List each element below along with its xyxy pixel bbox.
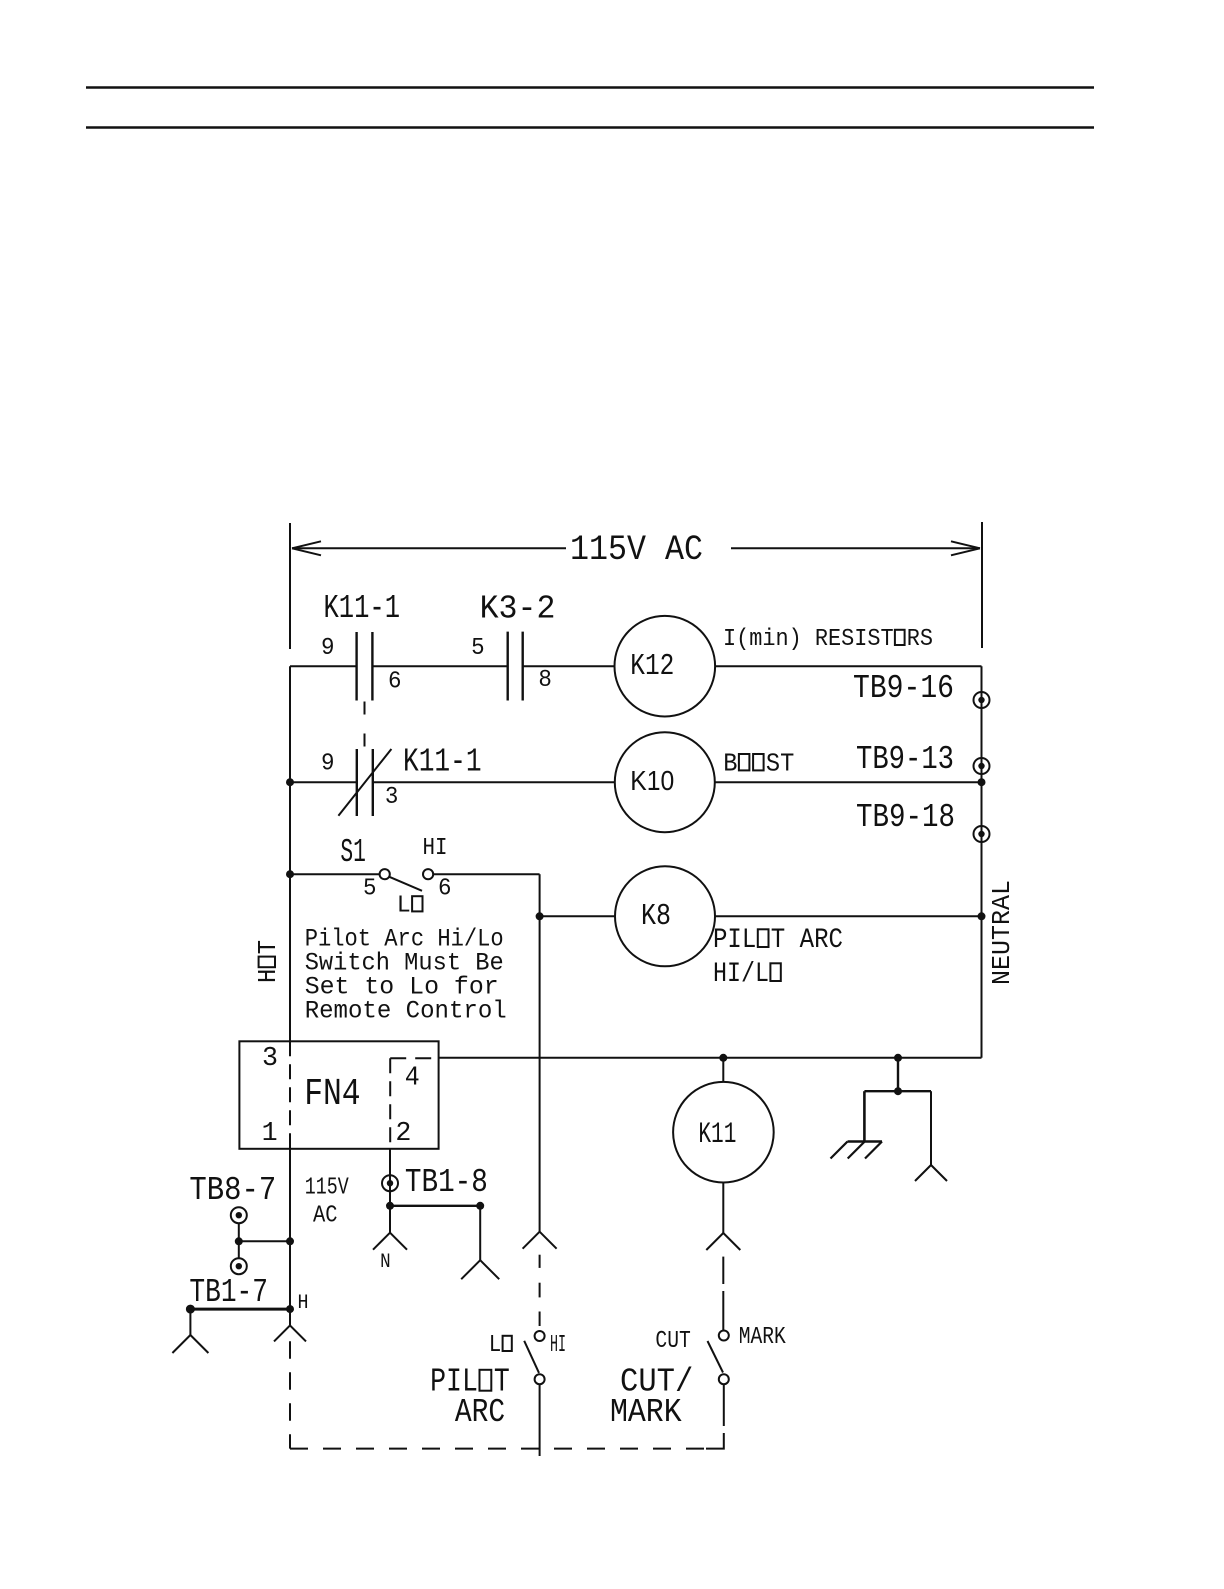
junction row3 right bbox=[978, 912, 986, 920]
terminal TB1-8 bbox=[382, 1175, 398, 1191]
junction row2 left bbox=[286, 778, 294, 786]
contact K11-1 (NC) pins 9-3 bbox=[338, 749, 391, 816]
svg-text:TB9-13: TB9-13 bbox=[856, 741, 954, 778]
hidden wire H to pendant bbox=[289, 1341, 291, 1448]
svg-text:5: 5 bbox=[363, 876, 377, 903]
svg-text:3: 3 bbox=[262, 1044, 278, 1074]
FN4 internal dashed path 4 horizontal bbox=[390, 1057, 437, 1059]
label HOT (vertical) bbox=[253, 940, 283, 983]
junction TB1-7 left bbox=[186, 1305, 195, 1314]
wire S1-HI down to pendant bbox=[539, 916, 541, 1231]
svg-text:L: L bbox=[397, 892, 411, 919]
HOT rail upper bbox=[289, 666, 291, 1041]
svg-text:TB9-16: TB9-16 bbox=[853, 670, 954, 707]
junction ground split bbox=[894, 1087, 902, 1095]
svg-text:9: 9 bbox=[321, 635, 335, 662]
svg-text:PIL: PIL bbox=[713, 925, 756, 956]
wire TB1-7 bold link bbox=[190, 1308, 290, 1311]
switch S1 pin 5 contact bbox=[380, 869, 390, 879]
switch PILOT ARC blade bbox=[524, 1341, 539, 1373]
node H junction bbox=[286, 1305, 294, 1313]
hidden wire to MARK contact bbox=[722, 1257, 724, 1331]
svg-text:6: 6 bbox=[388, 669, 402, 696]
wire FN4 pin2 down bbox=[389, 1149, 391, 1206]
wire row1 segment d bbox=[715, 665, 981, 667]
wire row3 segment d bbox=[715, 915, 982, 917]
svg-text:5: 5 bbox=[471, 635, 485, 662]
svg-text:TB8-7: TB8-7 bbox=[189, 1172, 276, 1209]
wire row1 segment c bbox=[523, 665, 615, 667]
svg-text:HI/L: HI/L bbox=[713, 959, 769, 990]
relay coil K11 bbox=[673, 1082, 774, 1183]
svg-text:NEUTRAL: NEUTRAL bbox=[987, 880, 1017, 985]
svg-text:AC: AC bbox=[313, 1202, 338, 1229]
svg-text:K3-2: K3-2 bbox=[480, 591, 556, 628]
terminal TB9-16 bbox=[974, 692, 990, 708]
svg-text:TB1-8: TB1-8 bbox=[405, 1164, 488, 1201]
wire row1 segment a bbox=[290, 665, 357, 667]
svg-text:Remote Control: Remote Control bbox=[305, 997, 507, 1026]
connector crow-foot pilot arc bbox=[523, 1232, 540, 1249]
wire row3 segment c bbox=[540, 915, 615, 917]
wire row2 segment c bbox=[715, 781, 982, 783]
node N junction bbox=[386, 1202, 394, 1210]
FN4 internal dashed path 4-2 vertical bbox=[389, 1058, 391, 1149]
svg-text:K10: K10 bbox=[630, 765, 674, 796]
svg-text:4: 4 bbox=[405, 1064, 420, 1094]
switch CUT/MARK MARK contact bbox=[719, 1331, 729, 1341]
wire row3 segment a bbox=[290, 873, 380, 875]
svg-text:K12: K12 bbox=[630, 649, 674, 684]
junction TB1-8 right bbox=[476, 1202, 484, 1210]
svg-text:S1: S1 bbox=[340, 834, 366, 871]
FN4 internal dashed path 3-1 bbox=[289, 1041, 291, 1149]
junction row2 right bbox=[978, 778, 986, 786]
svg-text:K11-1: K11-1 bbox=[403, 744, 482, 781]
wire TB8-7 to junction bbox=[238, 1223, 240, 1258]
svg-text:T: T bbox=[253, 940, 283, 954]
svg-text:HI: HI bbox=[423, 835, 448, 862]
svg-text:FN4: FN4 bbox=[304, 1073, 360, 1116]
pendant dashed corner bbox=[706, 1433, 724, 1449]
svg-text:8: 8 bbox=[538, 667, 552, 694]
svg-text:T ARC: T ARC bbox=[771, 925, 843, 956]
connector crow-foot TB1-8 bbox=[461, 1260, 480, 1279]
svg-text:6: 6 bbox=[438, 876, 452, 903]
wire TB1-8 split bbox=[390, 1205, 480, 1207]
svg-text:CUT: CUT bbox=[655, 1328, 690, 1355]
junction K11 branch bbox=[719, 1054, 727, 1062]
svg-text:MARK: MARK bbox=[610, 1394, 682, 1431]
wire ground split horizontal bbox=[864, 1090, 931, 1092]
connector crow-foot TB1-7 bbox=[189, 1309, 191, 1335]
svg-text:L: L bbox=[489, 1332, 502, 1359]
svg-text:B: B bbox=[723, 748, 737, 778]
hidden wire to HI contact bbox=[539, 1255, 541, 1326]
svg-text:TB1-7: TB1-7 bbox=[189, 1274, 268, 1311]
switch PILOT ARC common contact bbox=[535, 1374, 545, 1384]
svg-text:3: 3 bbox=[385, 784, 399, 811]
svg-text:RS: RS bbox=[907, 626, 933, 653]
connector crow-foot neutral bbox=[915, 1165, 931, 1181]
terminal TB9-13 bbox=[974, 758, 990, 774]
wire TB8-7 junction to HOT rail bbox=[239, 1240, 290, 1242]
switch CUT/MARK common contact bbox=[719, 1374, 729, 1384]
svg-text:1: 1 bbox=[262, 1119, 278, 1149]
svg-text:115V: 115V bbox=[305, 1175, 349, 1202]
svg-text:MARK: MARK bbox=[739, 1324, 786, 1351]
svg-text:HI: HI bbox=[550, 1332, 566, 1359]
terminal TB8-7 bbox=[231, 1207, 247, 1223]
connector crow-foot H bbox=[289, 1309, 291, 1325]
svg-text:2: 2 bbox=[395, 1119, 411, 1149]
svg-text:I(min) RESIST: I(min) RESIST bbox=[723, 626, 894, 653]
header rule top bbox=[86, 86, 1094, 89]
junction HOT rail TB8 tap bbox=[286, 1237, 294, 1245]
wire CUT/MARK common down bbox=[723, 1384, 725, 1426]
svg-text:K11: K11 bbox=[698, 1118, 736, 1152]
svg-text:H: H bbox=[298, 1292, 309, 1315]
svg-text:H: H bbox=[253, 969, 283, 983]
label NEUTRAL (vertical) bbox=[987, 880, 1017, 985]
junction K8 input bbox=[536, 912, 544, 920]
wire K11 stem bbox=[722, 1058, 724, 1082]
junction TB8-7 bbox=[235, 1237, 243, 1245]
terminal TB9-18 bbox=[974, 826, 990, 842]
wire ground branch drop bbox=[897, 1058, 899, 1091]
svg-text:ARC: ARC bbox=[455, 1394, 505, 1431]
mechanical link dashes K11-1 bbox=[364, 702, 366, 747]
header rule bottom bbox=[86, 126, 1094, 129]
wire row1 segment b bbox=[372, 665, 507, 667]
wire to neutral connector bbox=[930, 1091, 932, 1165]
svg-text:115V AC: 115V AC bbox=[570, 530, 703, 570]
wire to chassis ground bbox=[863, 1091, 866, 1141]
svg-text:ST: ST bbox=[766, 748, 794, 778]
relay coil K12 bbox=[615, 616, 716, 717]
switch S1 blade bbox=[389, 877, 422, 891]
HOT rail lower bbox=[289, 1149, 291, 1309]
wire FN4 pin4 to NEUTRAL rail bbox=[439, 1057, 982, 1059]
wire row2 segment a bbox=[290, 781, 357, 783]
dimension arrow left bbox=[292, 541, 566, 555]
dimension extension line left (HOT rail top) bbox=[289, 523, 291, 649]
filter FN4 box bbox=[239, 1041, 438, 1149]
junction ground branch bbox=[894, 1054, 902, 1062]
svg-text:TB9-18: TB9-18 bbox=[856, 799, 955, 836]
wire TB1-8 right drop bbox=[479, 1206, 481, 1260]
relay coil K10 bbox=[615, 732, 715, 832]
switch PILOT ARC HI contact bbox=[535, 1331, 545, 1341]
pendant cable dashed bottom bbox=[290, 1448, 706, 1450]
chassis ground bbox=[831, 1142, 883, 1159]
wire PILOT ARC common down bbox=[539, 1384, 541, 1456]
NEUTRAL rail bbox=[981, 666, 983, 1058]
svg-text:N: N bbox=[380, 1251, 391, 1274]
relay coil K8 bbox=[615, 866, 715, 966]
wire S1 to K8 drop bbox=[539, 874, 541, 916]
svg-text:K8: K8 bbox=[641, 899, 671, 934]
svg-text:9: 9 bbox=[321, 751, 335, 778]
switch CUT/MARK blade bbox=[708, 1341, 724, 1373]
wire row2 segment b bbox=[373, 781, 615, 783]
wire K11 bottom bbox=[722, 1183, 724, 1234]
dimension arrow right bbox=[731, 541, 980, 555]
connector crow-foot N bbox=[373, 1233, 390, 1250]
contact K3-2 (NO) pins 5-8 bbox=[508, 632, 523, 701]
connector crow-foot K11 bbox=[706, 1233, 723, 1250]
dimension extension line right (NEUTRAL rail top) bbox=[981, 522, 983, 648]
switch S1 pin 6 contact bbox=[423, 869, 433, 879]
contact K11-1 (NO) pins 9-6 bbox=[357, 632, 373, 701]
svg-text:K11-1: K11-1 bbox=[324, 590, 401, 627]
terminal TB1-7 top circle bbox=[231, 1258, 247, 1274]
wire row3 segment b bbox=[433, 873, 539, 875]
wire N stem bbox=[389, 1206, 391, 1233]
junction row3 left bbox=[286, 870, 294, 878]
